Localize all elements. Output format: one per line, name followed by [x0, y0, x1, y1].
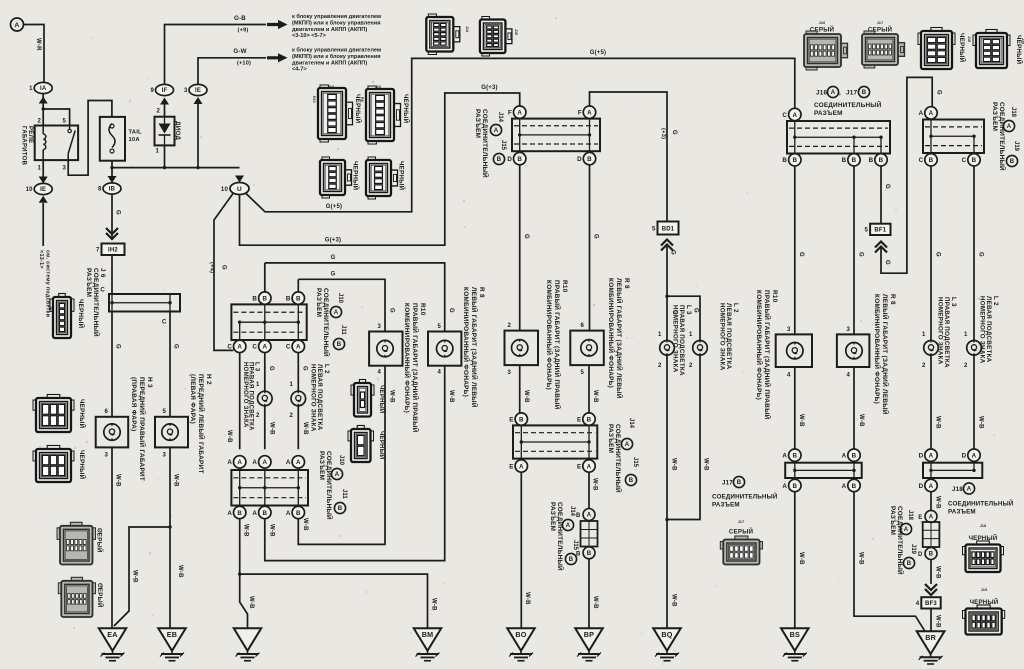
svg-text:E: E — [509, 416, 513, 423]
svg-text:W-B: W-B — [592, 596, 598, 609]
svg-text:НОМЕРНОГО ЗНАКА: НОМЕРНОГО ЗНАКА — [936, 297, 943, 365]
svg-text:A: A — [335, 472, 340, 478]
svg-text:РАЗЪЕМ: РАЗЪЕМ — [991, 102, 998, 131]
svg-text:J16: J16 — [819, 21, 826, 25]
svg-text:A: A — [625, 442, 630, 448]
svg-text:A: A — [262, 344, 267, 351]
svg-text:BO: BO — [515, 630, 526, 639]
svg-text:A: A — [252, 510, 257, 517]
svg-text:СЕРЫЙ: СЕРЫЙ — [96, 583, 104, 608]
svg-text:G(+5): G(+5) — [326, 204, 343, 210]
svg-text:A: A — [929, 453, 934, 460]
svg-text:A: A — [227, 459, 232, 466]
svg-text:1: 1 — [964, 332, 968, 338]
svg-text:РЕЛЕ: РЕЛЕ — [27, 126, 33, 143]
svg-text:СЕРЫЙ: СЕРЫЙ — [729, 528, 754, 536]
svg-text:J 6: J 6 — [99, 268, 106, 278]
svg-text:R10: R10 — [561, 280, 568, 293]
svg-text:СЕРЫЙ: СЕРЫЙ — [810, 26, 835, 34]
svg-text:BS: BS — [790, 630, 800, 639]
svg-text:J14: J14 — [465, 26, 469, 32]
svg-text:3: 3 — [184, 88, 188, 94]
svg-text:B: B — [237, 510, 242, 517]
svg-text:B: B — [252, 295, 257, 302]
svg-text:G: G — [173, 344, 179, 349]
svg-text:IF: IF — [162, 88, 168, 94]
svg-text:4: 4 — [846, 373, 850, 379]
svg-text:РАЗЪЕМ: РАЗЪЕМ — [889, 506, 896, 535]
svg-text:G-B: G-B — [234, 15, 246, 22]
svg-text:W-B: W-B — [243, 524, 249, 537]
svg-text:B: B — [792, 483, 797, 490]
svg-text:КОМБИНИРОВАННЫЙ ФОНАРЬ): КОМБИНИРОВАННЫЙ ФОНАРЬ) — [607, 278, 616, 388]
svg-text:J18: J18 — [952, 486, 963, 493]
svg-text:A: A — [237, 459, 242, 466]
svg-text:2: 2 — [289, 413, 293, 419]
svg-text:H 2: H 2 — [205, 374, 212, 385]
svg-text:G: G — [331, 255, 336, 261]
svg-text:B: B — [782, 157, 787, 164]
svg-text:РАЗЪЕМ: РАЗЪЕМ — [712, 502, 740, 509]
svg-text:J14: J14 — [569, 506, 575, 517]
svg-text:ГАБАРИТОВ: ГАБАРИТОВ — [20, 126, 26, 166]
svg-text:B: B — [1010, 159, 1015, 165]
svg-text:(ЛЕВАЯ ФАРА): (ЛЕВАЯ ФАРА) — [189, 374, 196, 424]
svg-text:E: E — [577, 463, 581, 470]
svg-text:J15: J15 — [500, 140, 506, 151]
svg-text:СОЕДИНИТЕЛЬНЫЙ: СОЕДИНИТЕЛЬНЫЙ — [325, 451, 334, 520]
svg-text:G: G — [268, 366, 274, 371]
svg-text:W-B: W-B — [935, 615, 941, 628]
svg-text:G: G — [448, 308, 454, 313]
svg-text:W-B: W-B — [173, 474, 179, 487]
svg-text:(ПРАВАЯ ФАРА): (ПРАВАЯ ФАРА) — [130, 377, 137, 432]
svg-text:R10: R10 — [312, 96, 316, 103]
svg-text:10: 10 — [221, 187, 229, 193]
svg-text:НОМЕРНОГО ЗНАКА: НОМЕРНОГО ЗНАКА — [718, 303, 725, 371]
svg-text:R 8: R 8 — [889, 294, 896, 305]
svg-text:G: G — [884, 184, 890, 189]
svg-text:G(+5): G(+5) — [590, 50, 607, 56]
svg-text:G: G — [884, 260, 890, 265]
svg-text:ПРАВЫЙ ГАБАРИТ (ЗАДНИЙ ПРАВЫЙ: ПРАВЫЙ ГАБАРИТ (ЗАДНИЙ ПРАВЫЙ — [411, 303, 420, 433]
svg-text:A: A — [792, 112, 797, 119]
svg-text:(+10): (+10) — [237, 61, 251, 67]
svg-text:1: 1 — [289, 382, 293, 388]
svg-text:3: 3 — [787, 327, 791, 333]
svg-text:к блоку управления двигателем: к блоку управления двигателем — [292, 13, 381, 20]
svg-text:G: G — [523, 234, 529, 239]
svg-text:ЛЕВЫЙ ГАБАРИТ (ЗАДНИЙ ЛЕВЫЙ: ЛЕВЫЙ ГАБАРИТ (ЗАДНИЙ ЛЕВЫЙ — [470, 287, 479, 408]
svg-text:A: A — [972, 453, 977, 460]
svg-text:2: 2 — [922, 363, 926, 369]
svg-text:W-B: W-B — [389, 390, 395, 403]
svg-text:5: 5 — [437, 324, 441, 330]
svg-text:B: B — [587, 416, 592, 423]
svg-text:W-B: W-B — [523, 390, 529, 403]
svg-text:U: U — [237, 186, 242, 193]
svg-text:J17: J17 — [877, 21, 884, 25]
svg-text:J18: J18 — [1010, 107, 1016, 118]
svg-text:W-B: W-B — [671, 594, 677, 607]
svg-text:H 3: H 3 — [146, 377, 153, 388]
svg-text:C: C — [252, 344, 257, 351]
svg-text:2: 2 — [658, 363, 662, 369]
svg-text:1: 1 — [658, 332, 662, 338]
svg-text:A: A — [296, 344, 301, 351]
svg-text:НОМЕРНОГО ЗНАКА: НОМЕРНОГО ЗНАКА — [309, 364, 316, 432]
svg-text:F: F — [578, 110, 582, 117]
svg-text:A: A — [929, 110, 934, 117]
svg-text:W-B: W-B — [858, 552, 864, 565]
svg-text:ЧЕРНЫЙ: ЧЕРНЫЙ — [352, 161, 360, 191]
svg-text:BR: BR — [925, 633, 936, 642]
svg-text:ЧЕРНЫЙ: ЧЕРНЫЙ — [402, 94, 410, 124]
svg-text:1: 1 — [689, 332, 693, 338]
svg-text:W-R: W-R — [35, 38, 41, 51]
svg-text:B: B — [929, 552, 934, 558]
svg-text:НОМЕРНОГО ЗНАКА: НОМЕРНОГО ЗНАКА — [671, 305, 678, 373]
svg-text:B: B — [519, 416, 524, 423]
svg-text:A: A — [782, 453, 787, 460]
svg-text:B: B — [879, 157, 884, 164]
svg-text:ПЕРЕДНИЙ ПРАВЫЙ ГАБАРИТ: ПЕРЕДНИЙ ПРАВЫЙ ГАБАРИТ — [138, 377, 147, 481]
svg-text:J15: J15 — [572, 540, 578, 551]
svg-text:B: B — [262, 295, 267, 302]
svg-text:J19: J19 — [1013, 141, 1019, 152]
svg-text:3: 3 — [846, 327, 850, 333]
svg-text:A: A — [967, 487, 972, 493]
svg-text:СОЕДИНИТЕЛЬНЫЙ: СОЕДИНИТЕЛЬНЫЙ — [322, 288, 331, 357]
svg-text:G: G — [936, 90, 942, 95]
svg-text:J17: J17 — [846, 90, 858, 97]
svg-text:(МКПП) или к блоку управления: (МКПП) или к блоку управления — [292, 19, 380, 26]
svg-text:W-B: W-B — [269, 422, 275, 435]
svg-text:B: B — [792, 157, 797, 164]
svg-text:D: D — [918, 552, 923, 558]
svg-text:1: 1 — [29, 86, 33, 92]
svg-text:G: G — [798, 252, 804, 257]
svg-text:A: A — [587, 110, 592, 117]
svg-text:E: E — [577, 416, 581, 423]
svg-text:J11: J11 — [341, 489, 347, 499]
svg-text:R10: R10 — [771, 290, 778, 303]
svg-text:B: B — [929, 157, 934, 164]
svg-text:СЕРЫЙ: СЕРЫЙ — [868, 26, 893, 34]
svg-text:РАЗЪЕМ: РАЗЪЕМ — [474, 109, 481, 138]
svg-text:РАЗЪЕМ: РАЗЪЕМ — [318, 451, 325, 480]
svg-text:5: 5 — [162, 409, 166, 415]
svg-text:A: A — [587, 463, 592, 470]
svg-text:BF1: BF1 — [874, 228, 886, 234]
svg-text:A: A — [296, 459, 301, 466]
svg-text:A: A — [929, 483, 934, 490]
svg-text:РАЗЪЕМ: РАЗЪЕМ — [948, 509, 976, 516]
svg-text:A: A — [262, 459, 267, 466]
svg-text:BD1: BD1 — [662, 226, 675, 232]
svg-text:J10: J10 — [338, 455, 344, 466]
svg-text:A: A — [15, 22, 20, 29]
svg-text:G: G — [671, 130, 677, 135]
svg-text:IH2: IH2 — [108, 248, 118, 254]
svg-text:B: B — [337, 342, 342, 348]
svg-text:R 8: R 8 — [478, 287, 485, 298]
svg-text:D: D — [577, 156, 582, 163]
svg-text:B: B — [286, 295, 291, 302]
svg-text:J16: J16 — [328, 85, 335, 89]
svg-text:J16: J16 — [816, 90, 828, 97]
svg-text:8: 8 — [98, 187, 102, 193]
svg-text:РАЗЪЕМ: РАЗЪЕМ — [85, 268, 92, 297]
svg-text:ЧЕРНЫЙ: ЧЕРНЫЙ — [398, 161, 406, 191]
svg-text:<4-7>: <4-7> — [292, 67, 307, 73]
svg-text:НОМЕРНОГО ЗНАКА: НОМЕРНОГО ЗНАКА — [978, 296, 985, 364]
svg-text:ЛЕВЫЙ ГАБАРИТ (ЗАДНИЙ ЛЕВЫЙ: ЛЕВЫЙ ГАБАРИТ (ЗАДНИЙ ЛЕВЫЙ — [615, 278, 624, 399]
svg-text:ЧЕРНЫЙ: ЧЕРНЫЙ — [1015, 35, 1023, 65]
svg-text:W-B: W-B — [798, 414, 804, 427]
svg-text:3: 3 — [162, 453, 166, 459]
svg-text:J17: J17 — [722, 480, 733, 487]
svg-text:2: 2 — [156, 109, 160, 115]
svg-text:W-B: W-B — [226, 430, 232, 443]
svg-text:1: 1 — [37, 166, 41, 172]
svg-text:G: G — [389, 308, 395, 313]
svg-text:E: E — [918, 515, 922, 521]
svg-text:СОЕДИНИТЕЛЬНЫЙ: СОЕДИНИТЕЛЬНЫЙ — [92, 268, 101, 337]
svg-text:КОМБИНИРОВАННЫЙ ФОНАРЬ): КОМБИНИРОВАННЫЙ ФОНАРЬ) — [462, 287, 471, 397]
svg-text:2: 2 — [964, 363, 968, 369]
svg-text:A: A — [227, 510, 232, 517]
svg-text:A: A — [782, 483, 787, 490]
svg-text:A: A — [904, 527, 909, 533]
svg-text:W-B: W-B — [269, 524, 275, 537]
svg-text:J11: J11 — [340, 325, 346, 335]
svg-text:СОЕДИНИТЕЛЬНЫЙ: СОЕДИНИТЕЛЬНЫЙ — [712, 493, 778, 501]
svg-text:C: C — [962, 157, 967, 164]
svg-text:J16: J16 — [375, 85, 382, 89]
svg-text:A: A — [1007, 124, 1012, 130]
svg-text:B: B — [296, 510, 301, 517]
svg-text:СОЕДИНИТЕЛЬНЫЙ: СОЕДИНИТЕЛЬНЫЙ — [481, 109, 490, 178]
svg-text:D: D — [962, 453, 967, 460]
svg-text:G: G — [670, 250, 676, 255]
svg-text:A: A — [831, 90, 836, 96]
svg-text:B: B — [869, 157, 874, 164]
svg-text:J10: J10 — [337, 293, 343, 304]
svg-text:W-B: W-B — [115, 474, 121, 487]
svg-text:3: 3 — [507, 370, 511, 376]
svg-text:G: G — [302, 366, 308, 371]
svg-text:РАЗЪЕМ: РАЗЪЕМ — [814, 110, 843, 117]
svg-text:J17: J17 — [738, 520, 745, 524]
svg-text:C: C — [286, 344, 291, 351]
svg-text:ПРАВЫЙ ГАБАРИТ (ЗАДНИЙ ПРАВЫЙ: ПРАВЫЙ ГАБАРИТ (ЗАДНИЙ ПРАВЫЙ — [763, 290, 772, 420]
svg-text:5: 5 — [62, 119, 66, 125]
svg-text:G: G — [593, 234, 599, 239]
svg-text:B: B — [569, 557, 574, 563]
svg-text:ЧЕРНЫЙ: ЧЕРНЫЙ — [969, 534, 998, 542]
svg-text:G: G — [693, 308, 699, 313]
svg-text:ЛЕВЫЙ ГАБАРИТ (ЗАДНИЙ ЛЕВЫЙ: ЛЕВЫЙ ГАБАРИТ (ЗАДНИЙ ЛЕВЫЙ — [881, 294, 890, 415]
svg-text:6: 6 — [104, 409, 108, 415]
svg-text:A: A — [587, 513, 592, 519]
svg-text:двигателем и АКПП (АКПП): двигателем и АКПП (АКПП) — [292, 60, 367, 66]
svg-text:G: G — [331, 272, 336, 278]
svg-text:W-B: W-B — [671, 458, 677, 471]
svg-text:ЧЕРНЫЙ: ЧЕРНЫЙ — [78, 450, 86, 480]
svg-text:IA: IA — [40, 86, 47, 92]
svg-text:B: B — [576, 513, 581, 519]
svg-text:J19: J19 — [981, 588, 988, 592]
svg-text:5: 5 — [652, 226, 656, 232]
svg-text:J18: J18 — [907, 510, 913, 521]
svg-text:A: A — [517, 110, 522, 117]
svg-text:РАЗЪЕМ: РАЗЪЕМ — [315, 288, 322, 317]
svg-text:A: A — [237, 344, 242, 351]
svg-text:СОЕДИНИТЕЛЬНЫЙ: СОЕДИНИТЕЛЬНЫЙ — [814, 100, 882, 109]
svg-text:2: 2 — [689, 363, 693, 369]
svg-text:10A: 10A — [129, 137, 141, 143]
svg-text:G: G — [935, 252, 941, 257]
svg-text:J15: J15 — [632, 457, 638, 468]
svg-text:EB: EB — [167, 630, 177, 639]
svg-text:ЧЕРНЫЙ: ЧЕРНЫЙ — [958, 33, 966, 63]
svg-text:J14: J14 — [497, 112, 503, 123]
svg-text:A: A — [842, 483, 847, 490]
svg-text:B: B — [587, 156, 592, 163]
svg-text:(+3): (+3) — [660, 128, 666, 139]
svg-text:B: B — [972, 157, 977, 164]
svg-text:B: B — [852, 157, 857, 164]
svg-text:A: A — [566, 523, 571, 529]
svg-text:ПРАВЫЙ ГАБАРИТ (ЗАДНИЙ ПРАВЫЙ: ПРАВЫЙ ГАБАРИТ (ЗАДНИЙ ПРАВЫЙ — [553, 280, 562, 410]
svg-text:КОМБИНИРОВАННЫЙ ФОНАРЬ): КОМБИНИРОВАННЫЙ ФОНАРЬ) — [545, 280, 554, 390]
svg-text:ПЕРЕДНИЙ ЛЕВЫЙ ГАБАРИТ: ПЕРЕДНИЙ ЛЕВЫЙ ГАБАРИТ — [197, 374, 206, 474]
svg-text:C: C — [100, 287, 105, 294]
svg-text:G(+3): G(+3) — [481, 85, 498, 91]
svg-text:7: 7 — [96, 248, 100, 254]
svg-text:СОЕДИНИТЕЛЬНЫЙ: СОЕДИНИТЕЛЬНЫЙ — [948, 500, 1014, 508]
svg-text:J19: J19 — [910, 544, 916, 555]
svg-text:КОМБИНИРОВАННЫЙ ФОНАРЬ): КОМБИНИРОВАННЫЙ ФОНАРЬ) — [755, 290, 764, 400]
svg-text:B: B — [862, 90, 867, 96]
svg-text:IE: IE — [195, 88, 201, 94]
svg-text:A: A — [286, 510, 291, 517]
svg-text:TAIL: TAIL — [129, 130, 143, 136]
svg-text:G: G — [978, 252, 984, 257]
svg-text:W-B: W-B — [302, 518, 308, 531]
svg-text:A: A — [519, 463, 524, 470]
svg-text:B: B — [907, 561, 912, 567]
svg-text:B: B — [852, 453, 857, 460]
svg-text:A: A — [842, 453, 847, 460]
svg-text:B: B — [842, 157, 847, 164]
svg-text:РАЗЪЕМ: РАЗЪЕМ — [549, 502, 556, 531]
svg-text:(+9): (+9) — [238, 28, 249, 34]
svg-text:двигателем и АКПП (АКПП): двигателем и АКПП (АКПП) — [292, 27, 367, 33]
svg-text:W-B: W-B — [177, 565, 183, 578]
svg-text:D: D — [507, 156, 512, 163]
svg-text:D: D — [919, 453, 924, 460]
svg-text:B: B — [792, 453, 797, 460]
svg-text:C: C — [782, 112, 787, 119]
svg-text:A: A — [919, 110, 924, 117]
svg-text:G: G — [858, 252, 864, 257]
svg-text:W-B: W-B — [448, 390, 454, 403]
svg-text:G-W: G-W — [233, 48, 246, 55]
svg-text:A: A — [929, 515, 934, 521]
svg-text:J6: J6 — [49, 306, 53, 310]
svg-text:9: 9 — [150, 88, 154, 94]
svg-text:W-B: W-B — [524, 592, 530, 605]
svg-text:4: 4 — [437, 370, 441, 376]
svg-text:J14: J14 — [628, 418, 634, 429]
svg-text:W-B: W-B — [798, 552, 804, 565]
svg-text:5: 5 — [580, 370, 584, 376]
svg-text:BQ: BQ — [661, 630, 672, 639]
svg-text:W-B: W-B — [592, 390, 598, 403]
svg-text:<13-1>: <13-1> — [38, 250, 44, 269]
svg-text:E: E — [509, 463, 513, 470]
svg-text:ДИОД: ДИОД — [174, 121, 181, 140]
svg-text:W-B: W-B — [978, 416, 984, 429]
svg-text:2: 2 — [37, 119, 41, 125]
svg-text:B: B — [262, 510, 267, 517]
svg-text:,: , — [839, 90, 841, 97]
svg-text:10: 10 — [26, 187, 34, 193]
svg-text:ЧЕРНЫЙ: ЧЕРНЫЙ — [354, 94, 362, 124]
svg-text:W-B: W-B — [935, 566, 941, 579]
svg-text:W-B: W-B — [302, 422, 308, 435]
svg-text:C: C — [162, 319, 167, 326]
svg-text:J15: J15 — [514, 29, 518, 35]
svg-text:5: 5 — [865, 228, 869, 234]
svg-text:4: 4 — [377, 370, 381, 376]
svg-text:СОЕДИНИТЕЛЬНЫЙ: СОЕДИНИТЕЛЬНЫЙ — [614, 424, 623, 493]
svg-text:W-B: W-B — [703, 458, 709, 471]
svg-text:ЧЕРНЫЙ: ЧЕРНЫЙ — [78, 399, 86, 429]
svg-text:W-B: W-B — [592, 478, 598, 491]
svg-text:D: D — [919, 483, 924, 490]
svg-text:B: B — [338, 506, 343, 512]
svg-text:КОМБИНИРОВАННЫЙ ФОНАРЬ): КОМБИНИРОВАННЫЙ ФОНАРЬ) — [403, 303, 412, 413]
svg-text:W-B: W-B — [132, 570, 138, 583]
svg-text:2: 2 — [507, 323, 511, 329]
svg-text:B: B — [296, 295, 301, 302]
svg-text:6: 6 — [580, 323, 584, 329]
svg-text:3: 3 — [62, 166, 66, 172]
svg-text:СОЕДИНИТЕЛЬНЫЙ: СОЕДИНИТЕЛЬНЫЙ — [556, 502, 565, 571]
svg-text:B: B — [497, 157, 502, 163]
svg-text:РАЗЪЕМ: РАЗЪЕМ — [607, 424, 614, 453]
svg-text:3: 3 — [104, 453, 108, 459]
svg-text:J18: J18 — [980, 524, 987, 528]
svg-text:3: 3 — [377, 324, 381, 330]
svg-text:BF3: BF3 — [925, 601, 937, 607]
svg-text:F: F — [508, 110, 512, 117]
svg-text:W-B: W-B — [935, 496, 941, 509]
svg-text:ЧЕРНЫЙ: ЧЕРНЫЙ — [970, 598, 999, 606]
svg-text:к блоку управления двигателем: к блоку управления двигателем — [292, 47, 381, 54]
svg-text:A: A — [334, 310, 339, 316]
svg-text:W-B: W-B — [248, 596, 254, 609]
svg-text:B: B — [587, 551, 592, 557]
svg-text:1: 1 — [155, 149, 159, 155]
svg-text:W-B: W-B — [858, 414, 864, 427]
svg-text:<3-10> <5-7>: <3-10> <5-7> — [292, 33, 327, 39]
svg-text:R 8: R 8 — [623, 278, 630, 289]
svg-text:C: C — [227, 344, 232, 351]
